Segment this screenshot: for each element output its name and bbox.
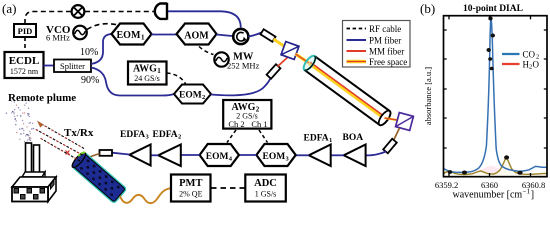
wire RF dashed PID to ECDL — [24, 37, 26, 52]
svg-text:wavenumber [cm: wavenumber [cm — [453, 190, 523, 201]
fiber ECDL to splitter — [44, 65, 55, 67]
svg-text:1: 1 — [141, 34, 145, 42]
svg-text:1: 1 — [329, 137, 332, 144]
svg-text:Tx/Rx: Tx/Rx — [64, 127, 94, 139]
wire RF dashed mixer-left to PID — [25, 12, 71, 25]
svg-text:absorbance [a.u.]: absorbance [a.u.] — [423, 67, 433, 125]
box PMT — [171, 175, 211, 202]
svg-text:1 GS/s: 1 GS/s — [255, 190, 277, 199]
svg-text:6359.2: 6359.2 — [435, 180, 458, 190]
wire RF dashed VCO to EOM1 — [87, 24, 118, 30]
svg-text:2: 2 — [202, 94, 205, 101]
box ECDL — [5, 52, 44, 78]
AWG2 box — [223, 100, 271, 129]
red cross at telescope aperture — [66, 151, 70, 155]
free-space beam cube2 to collimator3 — [394, 128, 400, 141]
factory windows — [14, 180, 54, 199]
fiber EOM4 to EDFA2 — [181, 154, 200, 156]
EDFA1 amplifier triangle — [309, 145, 331, 167]
box PID — [14, 24, 36, 37]
label EDFA2 — [153, 130, 182, 141]
svg-text:10-point DIAL: 10-point DIAL — [463, 4, 523, 14]
svg-text:PMT: PMT — [179, 178, 202, 189]
svg-text:Remote plume: Remote plume — [8, 92, 76, 104]
svg-text:ECDL: ECDL — [9, 55, 40, 67]
EDFA3 amplifier triangle — [129, 145, 150, 166]
svg-text:EOM: EOM — [179, 91, 202, 101]
VCO oscillator circle — [73, 26, 87, 40]
DIAL sample markers — [448, 17, 523, 175]
fiber AOM to circulator — [217, 35, 233, 37]
svg-text:]: ] — [531, 190, 534, 201]
H2O curve (dark yellow) — [444, 157, 548, 175]
Tx/Rx dashed beams to plume — [35, 121, 84, 162]
CO2 curve (blue) — [444, 18, 548, 172]
collimator1 — [260, 29, 275, 42]
free-space beam cell to cube2 — [385, 118, 401, 121]
fiber detector to circulator — [168, 11, 241, 27]
free-space beam collimator2 to cube1 (MM red) — [278, 57, 289, 67]
PBS cube1 — [281, 42, 299, 60]
svg-text:6 MHz: 6 MHz — [46, 33, 70, 43]
MW source oscillator — [214, 52, 228, 66]
PBS cube2 — [396, 113, 414, 131]
collimator4 — [100, 150, 113, 156]
svg-text:BOA: BOA — [343, 133, 364, 143]
fiber splitter 90% to EOM2 — [91, 68, 174, 96]
gas cell tube — [302, 54, 393, 127]
x tick labels — [435, 180, 545, 190]
svg-text:Free space: Free space — [369, 57, 407, 67]
svg-text:EDFA: EDFA — [304, 134, 329, 144]
svg-text:Ch 1: Ch 1 — [251, 119, 267, 129]
circulator — [233, 29, 248, 44]
factory building — [12, 143, 56, 202]
fiber collimator3 to BOA — [366, 152, 386, 156]
fiber BOA to EDFA1 — [331, 154, 344, 156]
svg-text:2: 2 — [178, 134, 181, 141]
fiber EOM2 to collimator2 — [211, 78, 271, 96]
svg-text:RF cable: RF cable — [369, 24, 401, 34]
fiber EDFA1 to EOM3 — [296, 154, 309, 156]
x axis label — [453, 188, 535, 201]
svg-text:AOM: AOM — [184, 31, 209, 42]
fiber circulator to collimator1 — [249, 33, 262, 37]
fiber EOM1 to AOM — [152, 34, 177, 36]
EOM4 hexagon — [200, 144, 239, 166]
free-space beam cube1 to cell — [296, 54, 310, 63]
AOM hexagon — [177, 24, 217, 45]
EOM3 hexagon — [256, 144, 295, 166]
fiber EOM3 to EOM4 — [239, 154, 257, 156]
svg-text:EDFA: EDFA — [153, 130, 178, 140]
svg-text:1572 nm: 1572 nm — [10, 67, 39, 76]
plot fills — [444, 157, 548, 177]
svg-text:2% QE: 2% QE — [179, 190, 202, 199]
svg-text:24 GS/s: 24 GS/s — [134, 74, 160, 83]
RF dashed AWG1 to EOM2 — [167, 73, 187, 85]
fiber EDFA3 to collimator4 — [112, 153, 129, 155]
svg-text:EOM: EOM — [206, 152, 229, 162]
svg-text:Splitter: Splitter — [60, 61, 85, 71]
label EDFA3 — [120, 130, 150, 141]
collimator2 — [267, 64, 281, 78]
svg-text:3: 3 — [146, 134, 150, 141]
svg-text:(a): (a) — [2, 1, 16, 16]
free-space beam collimator4 to telescope — [88, 154, 100, 158]
svg-text:−1: −1 — [523, 188, 531, 196]
free-space beam collimator1 to cube1 — [274, 39, 287, 48]
legend box — [343, 21, 411, 68]
mixer — [72, 5, 85, 18]
collimator3 — [383, 139, 397, 154]
b legend — [502, 50, 540, 71]
svg-text:MM fiber: MM fiber — [369, 47, 404, 57]
svg-text:10%: 10% — [80, 47, 98, 58]
svg-text:Ch 2: Ch 2 — [228, 119, 244, 129]
svg-text:ADC: ADC — [254, 178, 277, 189]
EDFA2 amplifier triangle — [158, 145, 181, 167]
telescope Tx/Rx — [70, 151, 126, 204]
plot frame — [444, 16, 548, 177]
photodetector — [155, 3, 167, 20]
svg-text:90%: 90% — [81, 75, 99, 86]
svg-text:PID: PID — [18, 26, 33, 36]
AWG1 box — [128, 62, 167, 85]
svg-text:CO: CO — [523, 50, 536, 60]
fiber splitter 10% to EOM1 — [91, 34, 112, 64]
svg-text:EDFA: EDFA — [120, 130, 145, 140]
box Splitter — [54, 60, 91, 73]
svg-text:PM fiber: PM fiber — [369, 36, 401, 46]
box ADC — [245, 175, 285, 202]
EOM2 hexagon — [174, 85, 211, 104]
RF dashed AOM to MW source — [199, 47, 214, 55]
svg-text:O: O — [533, 60, 540, 70]
svg-text:252 MHz: 252 MHz — [227, 61, 260, 71]
RF dashed PMT to ADC — [211, 187, 245, 189]
svg-text:EOM: EOM — [263, 152, 286, 162]
plume dots — [6, 100, 35, 145]
svg-text:(b): (b) — [420, 1, 435, 16]
svg-text:6360: 6360 — [481, 180, 498, 190]
RF dashed AWG2 Ch2 to EOM4 — [227, 130, 236, 143]
wire RF dashed mixer to detector — [85, 11, 154, 13]
label EDFA1 — [304, 134, 333, 145]
svg-text:EOM: EOM — [117, 30, 141, 41]
RF dashed AWG2 Ch1 to EOM3 — [259, 130, 268, 143]
MM fiber telescope to PMT — [120, 188, 171, 203]
fiber EDFA2 to EDFA3 — [151, 154, 159, 156]
svg-text:AWG: AWG — [133, 64, 157, 75]
EOM1 hexagon — [112, 24, 152, 45]
BOA amplifier triangle — [344, 145, 366, 167]
